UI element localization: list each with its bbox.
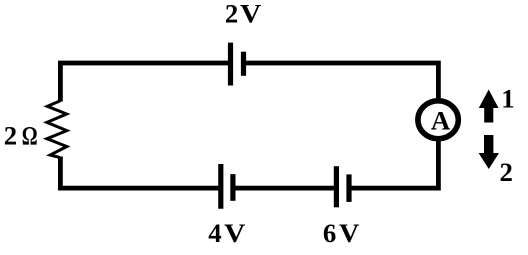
battery V3 6V long plate — [334, 166, 339, 207]
battery V1 2V long plate — [228, 43, 233, 86]
label 1 — [501, 84, 514, 114]
svg-text:1: 1 — [501, 84, 514, 114]
label 2 ohm (resistor) — [4, 121, 38, 152]
battery V1 2V short plate — [241, 52, 246, 76]
wire: bottom-left segment and lower-left vertical wire — [60, 157, 220, 189]
battery V2 4V long plate — [218, 164, 223, 209]
arrow 1 (up, direction indicator) — [479, 90, 499, 123]
svg-text:A: A — [431, 106, 451, 136]
svg-text:V: V — [240, 0, 262, 29]
svg-text:V: V — [339, 218, 359, 247]
ammeter A circle — [418, 101, 458, 139]
wire: bottom middle segment between batteries — [233, 186, 336, 191]
battery V3 6V short plate — [346, 174, 351, 202]
resistor R (2 ohm) zigzag — [47, 101, 67, 158]
ammeter letter A — [431, 106, 451, 136]
battery V2 4V short plate — [230, 174, 235, 201]
svg-text:6: 6 — [323, 218, 336, 248]
wire: top-right segment and upper-right vertical wire — [244, 63, 439, 101]
svg-text:Ω: Ω — [22, 122, 38, 152]
arrow 2 (down, direction indicator) — [479, 135, 499, 169]
svg-text:2: 2 — [225, 0, 238, 29]
label 2 — [499, 157, 512, 187]
svg-text:4: 4 — [208, 218, 221, 248]
label 2 V (top battery) — [225, 0, 262, 29]
label 6 V (bottom right battery) — [323, 218, 360, 248]
svg-text:2: 2 — [4, 121, 17, 151]
svg-text:V: V — [224, 219, 246, 248]
label 4 V (bottom left battery) — [208, 218, 246, 249]
svg-text:2: 2 — [499, 157, 512, 187]
wire: top-left segment and upper-left vertical wire — [60, 63, 230, 102]
wire: lower-right vertical and bottom-right segment — [349, 138, 438, 188]
